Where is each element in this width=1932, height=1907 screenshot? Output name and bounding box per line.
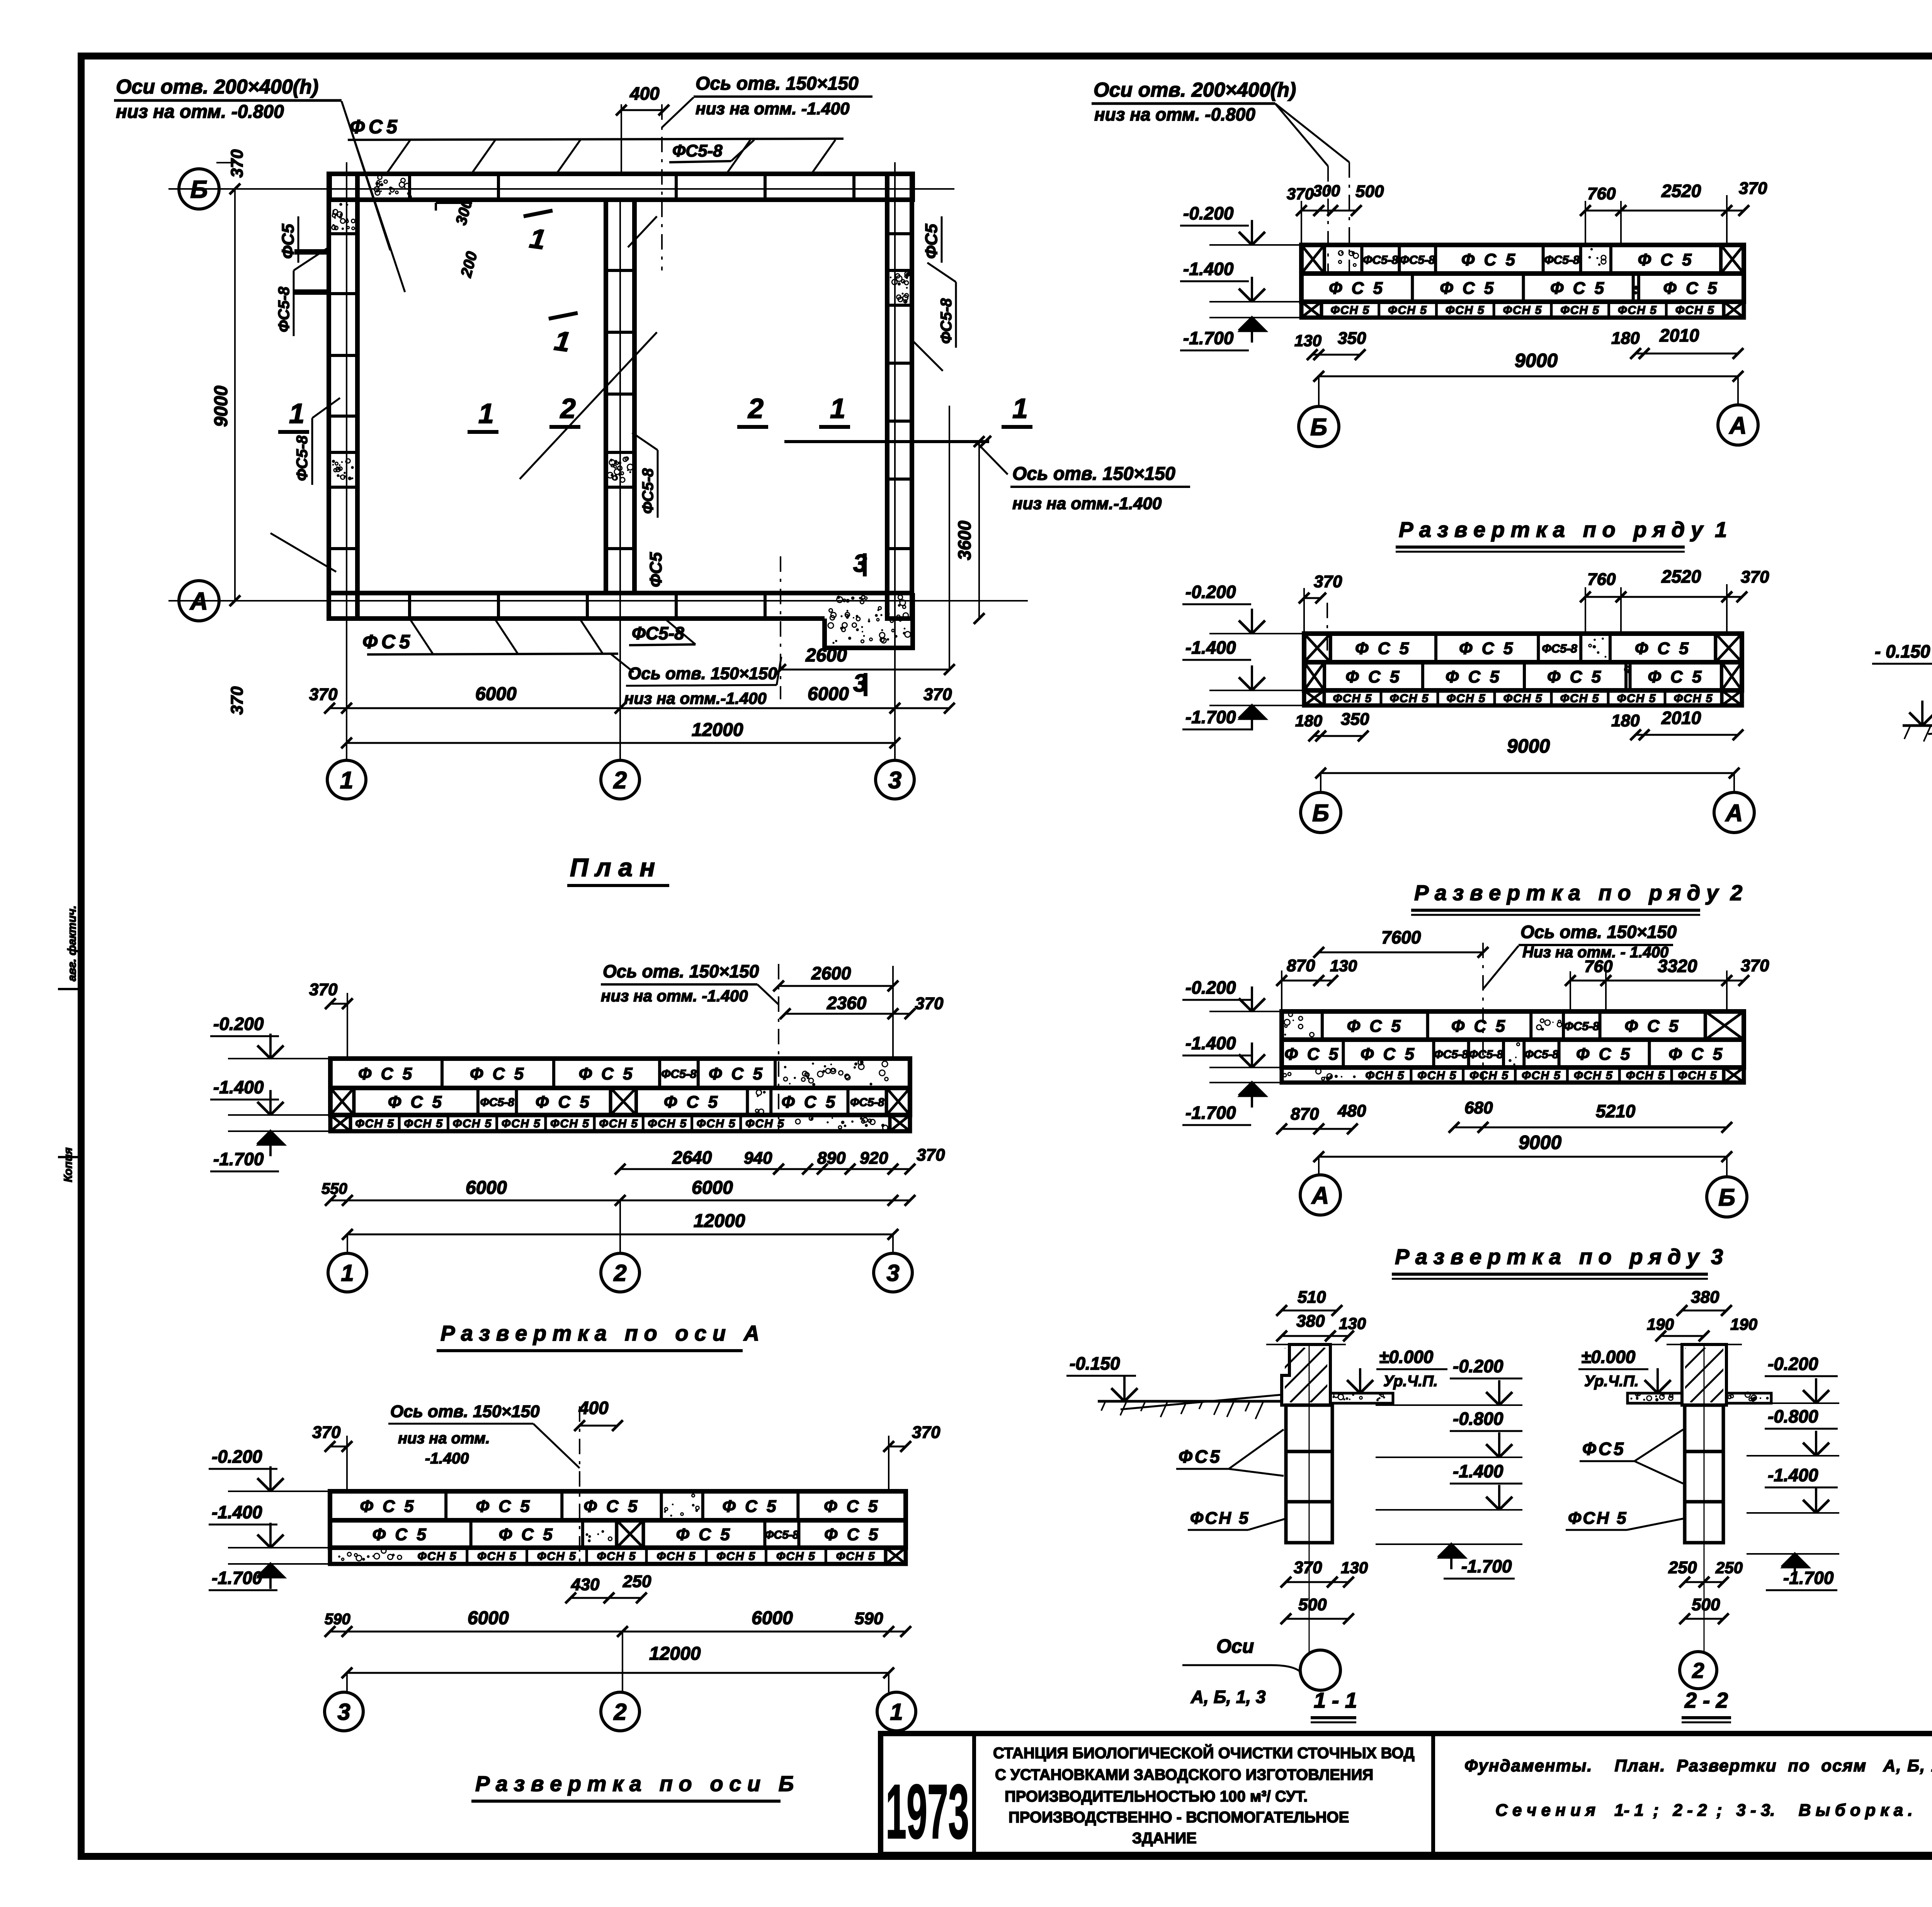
svg-text:1: 1 (340, 767, 353, 794)
svg-text:250: 250 (622, 1572, 651, 1591)
left margin tick 1 (58, 988, 81, 990)
svg-text:Ф С 5: Ф С 5 (1459, 639, 1515, 658)
svg-text:Оси отв. 200×400(h): Оси отв. 200×400(h) (116, 76, 318, 98)
long diagonal leader middle room (520, 332, 657, 479)
right wall block joint (887, 547, 912, 550)
hatch leader ФС5-8 top (731, 140, 754, 161)
cross end block (611, 1088, 636, 1115)
svg-text:ФСН 5: ФСН 5 (537, 1550, 577, 1563)
plan left vertical dim 9000 (234, 189, 236, 601)
svg-text:Ф С 5: Ф С 5 (1550, 279, 1606, 298)
svg-text:870: 870 (1287, 956, 1315, 975)
thin block joint (1437, 690, 1439, 705)
block joint (1323, 662, 1326, 690)
column centerline (1704, 1344, 1705, 1654)
svg-text:Ф С 5: Ф С 5 (360, 1497, 416, 1516)
right wall block joint (887, 232, 912, 235)
svg-text:380: 380 (1296, 1312, 1325, 1331)
svg-text:Ф С 5: Ф С 5 (1361, 1045, 1417, 1064)
svg-text:Ф С 5: Ф С 5 (536, 1093, 592, 1112)
svg-text:370: 370 (312, 1423, 341, 1442)
svg-text:Ф С 5: Ф С 5 (358, 1064, 414, 1083)
svg-text:9000: 9000 (1515, 350, 1558, 371)
thin block joint (1607, 690, 1610, 705)
svg-text:ФСН 5: ФСН 5 (1390, 692, 1429, 705)
svg-text:370: 370 (309, 685, 338, 704)
svg-text:-1.400: -1.400 (1185, 1033, 1236, 1053)
level reference line (1209, 1067, 1282, 1068)
left wall lower stipple patch (332, 459, 354, 480)
thin block joint (642, 1115, 645, 1131)
cross end block (617, 1520, 643, 1548)
svg-text:Ф С 5: Ф С 5 (1668, 1045, 1725, 1064)
svg-text:2520: 2520 (1661, 181, 1701, 201)
hatch stroke top band (726, 140, 750, 174)
right wall block joint (887, 304, 912, 307)
block joint (797, 1520, 800, 1548)
svg-text:Оси: Оси (1216, 1635, 1254, 1657)
svg-text:А: А (189, 587, 208, 615)
extension line 400 left (621, 104, 622, 175)
svg-text:ФС5-8: ФС5-8 (850, 1096, 884, 1109)
block joint (635, 1088, 638, 1115)
svg-text:7600: 7600 (1381, 927, 1421, 947)
thin block joint (466, 1548, 468, 1564)
monolith stipple block (755, 1090, 766, 1114)
monolith stipple block (1338, 251, 1359, 267)
plan top wall along axis Б (330, 174, 913, 200)
block joint (1579, 245, 1582, 274)
thin block joint (645, 1548, 648, 1564)
svg-text:ФС5-8: ФС5-8 (1434, 1048, 1468, 1061)
svg-text:Ф С 5: Ф С 5 (388, 1093, 444, 1112)
bottom hatch underline (367, 654, 618, 654)
axis circles А Б (1318, 1157, 1320, 1175)
hatch band underline / leader line top (348, 139, 844, 140)
svg-text:ФСН 5: ФСН 5 (1617, 692, 1656, 705)
block joint (609, 1088, 612, 1115)
svg-text:С УСТАНОВКАМИ ЗАВОДСКОГО ИЗГ: С УСТАНОВКАМИ ЗАВОДСКОГО ИЗГОТОВЛЕНИЯ (995, 1766, 1373, 1783)
level reference line (1209, 690, 1304, 691)
block joint (444, 1491, 447, 1520)
svg-text:Ур.Ч.П.: Ур.Ч.П. (1584, 1373, 1639, 1390)
отв axis dash-dot vertical (778, 964, 779, 1131)
svg-text:ФС5-8: ФС5-8 (1363, 253, 1398, 267)
thin block joint (1378, 302, 1380, 318)
svg-text:2: 2 (613, 1260, 626, 1286)
block joint (1704, 1011, 1707, 1040)
svg-text:1: 1 (478, 398, 494, 429)
svg-text:370: 370 (309, 980, 338, 999)
thin block joint (1462, 1067, 1464, 1083)
hatch stroke top band (386, 140, 410, 174)
plan bottom wall along axis А (330, 591, 913, 595)
left wall monolith stipple patch (332, 203, 355, 230)
floor slab right stub (1330, 1393, 1393, 1403)
svg-text:Р а з в е р т к а п о р я: Р а з в е р т к а п о р я д у 3 (1395, 1244, 1723, 1269)
thin block joint (739, 1115, 742, 1131)
svg-text:5210: 5210 (1596, 1101, 1636, 1121)
level reference line (228, 1114, 330, 1116)
svg-text:ФСН 5: ФСН 5 (1366, 1069, 1405, 1082)
svg-text:ФСН 5: ФСН 5 (1522, 1069, 1561, 1082)
svg-text:370: 370 (228, 686, 247, 715)
svg-text:Ф С 5: Ф С 5 (499, 1525, 555, 1544)
svg-text:3: 3 (888, 767, 901, 794)
apron slope line (1121, 1395, 1282, 1409)
svg-text:760: 760 (1587, 184, 1616, 203)
axis circles Б А (1320, 773, 1321, 793)
svg-text:ФС5-8: ФС5-8 (1469, 1048, 1503, 1061)
svg-text:ФС5-8: ФС5-8 (661, 1067, 697, 1081)
svg-text:ФСН 5: ФСН 5 (1574, 1069, 1613, 1082)
section 2-2 wall hatch (1682, 1344, 1726, 1405)
svg-text:ФСН 5: ФСН 5 (597, 1550, 636, 1563)
hatch stroke top band (811, 140, 835, 174)
axis circles Б А (1318, 376, 1320, 407)
svg-text:2360: 2360 (827, 993, 867, 1013)
svg-text:6000: 6000 (692, 1178, 733, 1198)
thin block joint (585, 1548, 588, 1564)
block joint (581, 1520, 584, 1548)
svg-text:низ на отм. -1.400: низ на отм. -1.400 (696, 99, 850, 118)
block joint (515, 1088, 518, 1115)
top wall block joint (408, 174, 411, 200)
svg-text:ФС5: ФС5 (1179, 1446, 1222, 1467)
left margin tick 2 (58, 1156, 81, 1158)
svg-text:ФСН 5: ФСН 5 (1675, 304, 1715, 317)
monolith stipple block (1537, 1019, 1562, 1031)
block joint (1398, 245, 1401, 274)
top wall block joint (675, 174, 678, 200)
left wall block joint (329, 292, 357, 295)
block joint (352, 1088, 355, 1115)
svg-text:760: 760 (1584, 957, 1613, 976)
leader diagonal right wall lower (912, 340, 943, 371)
svg-text:ФСН 5: ФСН 5 (1190, 1509, 1250, 1528)
bottom wall block joint (675, 593, 678, 619)
block joint (1432, 1040, 1435, 1067)
left wall block joint (329, 547, 357, 550)
svg-text:ПРОИЗВОДИТЕЛЬНОСТЬЮ 100 м³/ С: ПРОИЗВОДИТЕЛЬНОСТЬЮ 100 м³/ СУТ. (1005, 1788, 1308, 1805)
svg-text:ФСН 5: ФСН 5 (1560, 304, 1600, 317)
svg-text:Ф С 5: Ф С 5 (824, 1525, 880, 1544)
svg-text:370: 370 (1314, 572, 1342, 591)
bottom wall block joint (764, 593, 767, 619)
top wall block joint (764, 174, 767, 200)
hatch stroke top band (556, 140, 580, 174)
svg-text:Ф С 5: Ф С 5 (1440, 279, 1496, 298)
thin block joint (765, 1548, 767, 1564)
thin block joint (1493, 690, 1496, 705)
block joint (1637, 274, 1640, 302)
leader lines to отв axes (1275, 104, 1328, 166)
extension verticals left (1301, 201, 1302, 245)
svg-text:ФСН 5: ФСН 5 (1469, 1069, 1509, 1082)
svg-text:ФСН 5: ФСН 5 (1417, 1069, 1457, 1082)
thin block joint (544, 1115, 547, 1131)
svg-text:ФСН 5: ФСН 5 (656, 1550, 696, 1563)
thin block joint (526, 1548, 528, 1564)
svg-text:Ф С 5: Ф С 5 (664, 1093, 720, 1112)
development strip outline (330, 1059, 910, 1088)
svg-text:ФС5-8: ФС5-8 (672, 141, 723, 160)
svg-text:низ на отм. -1.400: низ на отм. -1.400 (601, 987, 748, 1005)
svg-text:-1.400: -1.400 (212, 1502, 262, 1522)
monolith stipple block (586, 1530, 612, 1542)
thin row stipple right (796, 1117, 888, 1130)
bottom wall block joint (497, 593, 500, 619)
development strip outline (1282, 1011, 1744, 1040)
svg-text:Б: Б (1718, 1184, 1735, 1211)
svg-text:-0.200: -0.200 (1183, 203, 1234, 223)
svg-text:Оси отв. 200×400(h): Оси отв. 200×400(h) (1094, 79, 1296, 101)
svg-text:-0.800: -0.800 (1768, 1406, 1818, 1426)
level reference line (1209, 1011, 1282, 1012)
cross end block (330, 1088, 354, 1115)
svg-text:ФС5-8: ФС5-8 (1542, 642, 1578, 655)
block joint (1529, 1011, 1532, 1040)
svg-text:130: 130 (1341, 1559, 1368, 1577)
level reference line (1209, 1082, 1282, 1083)
svg-text:2: 2 (613, 767, 627, 794)
svg-text:500: 500 (1355, 182, 1384, 201)
svg-text:430: 430 (571, 1575, 600, 1594)
block joint (885, 1088, 888, 1115)
svg-text:ФСН 5: ФСН 5 (776, 1550, 816, 1563)
block joint (1558, 1040, 1561, 1067)
thin block joint (1566, 1067, 1569, 1083)
svg-text:-1.700: -1.700 (1461, 1556, 1512, 1576)
svg-text:ФСН 5: ФСН 5 (716, 1550, 756, 1563)
plan axis line 1 (346, 162, 347, 760)
monolith stipple block (1284, 1013, 1314, 1037)
development strip outline (1304, 634, 1742, 662)
svg-text:Ф С 5: Ф С 5 (1347, 1017, 1403, 1036)
development strip outline (330, 1491, 906, 1520)
block joint (1522, 274, 1525, 302)
svg-text:Копия: Копия (62, 1147, 75, 1182)
block joint (701, 1491, 704, 1520)
leader to Ось отв text right (978, 444, 1008, 474)
block joint (1719, 245, 1723, 274)
block joint (1648, 1040, 1651, 1067)
svg-text:6000: 6000 (475, 684, 517, 704)
small ticks at Б and А on dim (216, 162, 235, 163)
svg-text:190: 190 (1647, 1315, 1674, 1333)
svg-text:370: 370 (1739, 179, 1767, 198)
block joint (1720, 662, 1723, 690)
block joint (560, 1491, 563, 1520)
block joint (763, 1520, 766, 1548)
block joint (846, 1088, 849, 1115)
svg-text:370: 370 (228, 149, 247, 178)
svg-text:-0.200: -0.200 (1185, 977, 1236, 998)
block joint (1434, 245, 1437, 274)
svg-text:-0.200: -0.200 (1185, 582, 1236, 602)
svg-text:Ф С 5: Ф С 5 (372, 1525, 429, 1544)
svg-text:Ур.Ч.П.: Ур.Ч.П. (1383, 1373, 1438, 1390)
leader (777, 657, 781, 685)
wall top break line (1266, 1344, 1346, 1345)
leader to circle (1182, 1665, 1301, 1673)
cross end block thin row (1722, 690, 1742, 705)
svg-text:ФС5-8: ФС5-8 (639, 468, 656, 514)
thin block joint (1410, 1067, 1412, 1083)
leader lines to wall openings (342, 101, 390, 250)
block joint (1426, 1011, 1429, 1040)
cross end block thin row (890, 1115, 910, 1131)
svg-text:-1.700: -1.700 (1783, 1568, 1834, 1588)
svg-text:370: 370 (912, 1423, 940, 1442)
apron slope (1928, 719, 1932, 734)
svg-text:А: А (1725, 800, 1743, 826)
level reference line (1209, 301, 1301, 303)
svg-text:Ось отв. 150×150: Ось отв. 150×150 (1520, 922, 1677, 942)
block joint (658, 1059, 661, 1088)
block joint (1434, 634, 1437, 662)
block joint (1624, 662, 1628, 690)
thin row stipple left (1283, 1069, 1356, 1080)
block joint (1562, 1011, 1565, 1040)
svg-text:ФС5-8: ФС5-8 (480, 1096, 515, 1109)
svg-text:ФСН 5: ФСН 5 (1330, 304, 1370, 317)
block joint (746, 1088, 749, 1115)
axis circles 1 2 3 (347, 1234, 348, 1253)
cross end block thin row (330, 1115, 350, 1131)
monolith stipple block (664, 1494, 699, 1516)
svg-text:Ф С 5: Ф С 5 (1547, 668, 1603, 687)
svg-text:Ф С 5: Ф С 5 (583, 1497, 639, 1516)
block joint (552, 1059, 555, 1088)
monolith stipple block (1509, 1043, 1520, 1066)
svg-text:авг. фактич.: авг. фактич. (66, 906, 78, 981)
hatch stroke top band (471, 140, 495, 174)
svg-text:ФСН 5: ФСН 5 (697, 1117, 736, 1130)
svg-text:480: 480 (1337, 1101, 1366, 1120)
отв axis dash vertical (579, 1406, 580, 1564)
svg-text:500: 500 (1692, 1595, 1720, 1614)
svg-text:ФСН 5: ФСН 5 (502, 1117, 541, 1130)
left wall block joint (329, 232, 357, 235)
svg-text:ФСН 5: ФСН 5 (1447, 692, 1486, 705)
plan axis circle А (179, 581, 219, 621)
bottom wall right monolith step outline (825, 593, 913, 648)
thin block joint (1665, 302, 1668, 318)
svg-text:2640: 2640 (672, 1147, 712, 1168)
leader diagonal bottom right (611, 654, 634, 672)
svg-text:2520: 2520 (1661, 566, 1701, 586)
svg-text:2600: 2600 (811, 963, 851, 983)
svg-text:1: 1 (289, 398, 304, 429)
svg-text:ФСН 5: ФСН 5 (1626, 1069, 1665, 1082)
svg-text:ЗДАНИЕ: ЗДАНИЕ (1132, 1830, 1197, 1847)
top wall block joint (852, 174, 855, 200)
svg-text:ФС5: ФС5 (279, 224, 298, 259)
small dim bracket corner (436, 202, 472, 204)
block joint (1537, 634, 1540, 662)
svg-text:±0.000: ±0.000 (1581, 1347, 1636, 1367)
svg-text:130: 130 (1339, 1314, 1366, 1333)
plan axis line Б (168, 188, 954, 190)
level reference line (228, 1563, 330, 1565)
block joint (1632, 274, 1635, 302)
svg-text:940: 940 (744, 1149, 772, 1168)
svg-text:Ось отв. 150×150: Ось отв. 150×150 (390, 1402, 540, 1421)
svg-text:6000: 6000 (466, 1178, 507, 1198)
plan middle wall along axis 2 (606, 200, 634, 593)
svg-text:920: 920 (860, 1149, 888, 1168)
block joint (1599, 1011, 1602, 1040)
monolith stipple block (1634, 286, 1638, 294)
thin block joint (705, 1548, 707, 1564)
svg-text:±0.000: ±0.000 (1379, 1347, 1434, 1367)
diagonal leader middle wall top (628, 216, 657, 247)
svg-text:400: 400 (629, 83, 660, 104)
level reference line (228, 1058, 330, 1059)
block joint (1321, 1011, 1324, 1040)
foundation column blocks (1286, 1405, 1332, 1451)
svg-text:1: 1 (341, 1260, 354, 1286)
plan left wall along axis 1 (329, 174, 357, 619)
svg-text:Ось отв. 150×150: Ось отв. 150×150 (628, 664, 777, 683)
svg-text:Ф С 5: Ф С 5 (1461, 250, 1517, 269)
block joint (697, 1059, 700, 1088)
ground line (1903, 724, 1932, 727)
svg-text:ФС5-8: ФС5-8 (294, 435, 311, 481)
svg-text:ФСН 5: ФСН 5 (599, 1117, 638, 1130)
svg-text:1: 1 (1012, 393, 1028, 424)
cross end block (1304, 662, 1325, 690)
svg-text:ФСН 5: ФСН 5 (453, 1117, 492, 1130)
plan bottom axis circles 1 2 3 (327, 760, 366, 799)
monolith stipple block (1624, 666, 1631, 673)
svg-text:Ф С 5: Ф С 5 (824, 1497, 880, 1516)
block joint (1323, 245, 1326, 274)
svg-text:Ф С 5: Ф С 5 (1635, 639, 1691, 658)
svg-text:370: 370 (1741, 568, 1769, 586)
thin block joint (1607, 302, 1610, 318)
svg-text:180: 180 (1295, 712, 1322, 730)
svg-text:180: 180 (1611, 711, 1640, 730)
block joint (660, 1491, 663, 1520)
svg-text:ФС5-8: ФС5-8 (276, 286, 293, 332)
svg-text:- 0.150: - 0.150 (1875, 641, 1930, 661)
svg-text:-0.200: -0.200 (1453, 1356, 1503, 1376)
svg-text:890: 890 (817, 1149, 846, 1168)
svg-text:Ф С 5: Ф С 5 (579, 1064, 635, 1083)
block joint (440, 1059, 444, 1088)
section cut mark 1 lower (549, 313, 578, 319)
thin block joint (495, 1115, 498, 1131)
block joint (1579, 634, 1582, 662)
block joint (476, 1088, 480, 1115)
cross end block thin row (886, 1548, 906, 1564)
block joint (642, 1520, 645, 1548)
svg-text:А: А (1729, 412, 1747, 439)
svg-text:2: 2 (560, 393, 576, 424)
svg-text:ФС5-8: ФС5-8 (632, 623, 684, 643)
cell line desc (1431, 1734, 1435, 1854)
svg-text:ФСН 5: ФСН 5 (1388, 304, 1427, 317)
svg-text:ФСН 5: ФСН 5 (836, 1550, 876, 1563)
right wall monolith stipple patch (890, 272, 910, 303)
extension verticals (347, 993, 348, 1059)
svg-text:ФС5: ФС5 (646, 552, 665, 587)
block joint (1467, 1040, 1470, 1067)
block joint (1523, 662, 1526, 690)
leader line (533, 1424, 580, 1468)
